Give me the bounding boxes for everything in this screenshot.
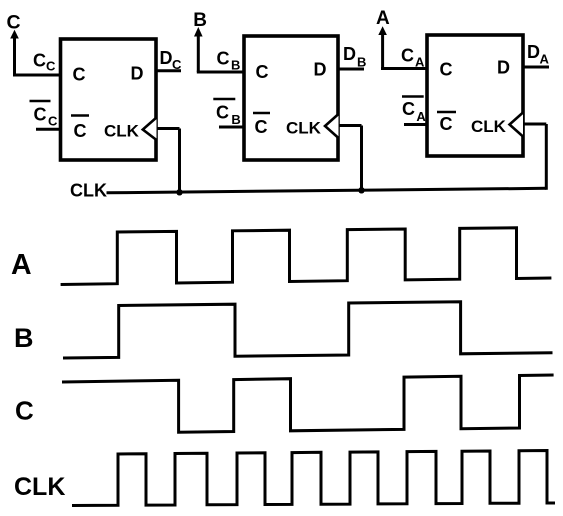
wire CC-bar stub to U1 xyxy=(36,128,61,131)
U1 pin label C xyxy=(73,65,86,85)
wire node C to U1 C input xyxy=(13,74,61,77)
svg-text:C: C xyxy=(255,117,268,137)
node B arrow xyxy=(194,27,203,72)
U2 pin label CLK xyxy=(286,119,322,138)
wire CA-bar stub to U3 xyxy=(404,123,427,126)
svg-text:C: C xyxy=(402,99,415,119)
U2 clock edge triangle xyxy=(325,114,339,138)
wire node B to U2 C input xyxy=(197,71,244,74)
U1 pin label D xyxy=(131,64,144,84)
junction U1 CLK xyxy=(176,189,182,195)
junction U2 CLK xyxy=(358,187,364,193)
node B label xyxy=(193,10,207,31)
svg-text:A: A xyxy=(540,52,550,67)
svg-text:CLK: CLK xyxy=(14,473,65,501)
flip-flop U2 (B stage) xyxy=(244,36,338,160)
U1 pin label C-bar xyxy=(71,116,89,142)
label CLK net xyxy=(70,180,107,200)
svg-text:C: C xyxy=(74,121,87,141)
svg-text:B: B xyxy=(357,55,366,70)
waveform label CLK xyxy=(14,473,65,501)
U3 pin label C xyxy=(440,60,453,80)
svg-text:B: B xyxy=(14,323,34,353)
label CC xyxy=(33,50,56,73)
U2 pin label C xyxy=(256,62,269,82)
wire CLK bus xyxy=(107,188,547,193)
waveform C trace xyxy=(62,375,554,432)
waveform B trace xyxy=(63,302,553,358)
wire U3 D output xyxy=(523,66,549,69)
svg-text:A: A xyxy=(416,109,426,124)
svg-text:CLK: CLK xyxy=(70,180,107,200)
node C label xyxy=(7,11,21,33)
svg-text:C: C xyxy=(440,60,453,80)
node A arrow xyxy=(378,26,387,68)
svg-text:A: A xyxy=(11,249,32,281)
flip-flop U3 (A stage) xyxy=(427,35,523,156)
svg-text:C: C xyxy=(15,396,34,426)
flip-flop U1 (C stage) xyxy=(61,39,157,160)
svg-text:A: A xyxy=(415,55,425,70)
U3 pin label CLK xyxy=(471,117,507,136)
node A label xyxy=(376,8,390,29)
U1 clock edge triangle xyxy=(143,118,157,141)
svg-text:D: D xyxy=(343,44,356,64)
svg-text:CLK: CLK xyxy=(471,117,507,136)
label CB-bar xyxy=(213,99,240,127)
svg-text:CLK: CLK xyxy=(286,119,322,138)
svg-text:C: C xyxy=(48,113,58,128)
svg-text:CLK: CLK xyxy=(104,122,140,141)
svg-text:D: D xyxy=(314,60,327,80)
svg-text:D: D xyxy=(527,42,540,62)
node C arrow xyxy=(10,30,19,75)
wire U1 D output xyxy=(157,69,182,72)
label CC-bar xyxy=(30,101,59,128)
label CA-bar xyxy=(402,97,426,124)
waveform label B xyxy=(14,323,34,353)
svg-text:C: C xyxy=(33,50,46,70)
U1 pin label CLK xyxy=(104,122,140,141)
wire U2 D output xyxy=(339,68,365,71)
svg-text:D: D xyxy=(131,64,144,84)
wire CB-bar stub to U2 xyxy=(219,126,244,129)
wire U1 CLK branch xyxy=(157,129,180,195)
svg-text:C: C xyxy=(401,45,414,65)
label DB xyxy=(343,44,366,69)
waveform CLK trace xyxy=(72,451,555,506)
waveform A trace xyxy=(61,228,552,285)
U2 pin label C-bar xyxy=(253,113,270,137)
svg-text:B: B xyxy=(231,58,240,73)
svg-text:B: B xyxy=(193,10,207,31)
svg-text:C: C xyxy=(256,62,269,82)
U3 clock edge triangle xyxy=(510,113,524,137)
svg-text:C: C xyxy=(216,103,229,123)
wire U2 CLK branch xyxy=(339,126,362,192)
svg-text:A: A xyxy=(376,8,390,29)
wire node A to U3 C input xyxy=(381,67,427,70)
waveform label A xyxy=(11,249,32,281)
svg-text:C: C xyxy=(46,59,56,74)
label CA xyxy=(401,45,425,69)
svg-text:B: B xyxy=(231,112,240,127)
svg-text:C: C xyxy=(217,48,230,68)
wire U3 CLK branch xyxy=(523,124,546,190)
U2 pin label D xyxy=(314,60,327,80)
waveform label C xyxy=(15,396,34,426)
label CB xyxy=(217,48,241,72)
label DC xyxy=(160,48,183,72)
svg-text:C: C xyxy=(73,65,86,85)
U3 pin label D xyxy=(497,58,510,78)
svg-text:D: D xyxy=(160,48,173,68)
U3 pin label C-bar xyxy=(437,112,456,134)
svg-text:D: D xyxy=(497,58,510,78)
svg-text:C: C xyxy=(7,11,21,33)
svg-text:C: C xyxy=(34,105,47,125)
label DA xyxy=(527,42,550,66)
svg-text:C: C xyxy=(440,114,453,134)
